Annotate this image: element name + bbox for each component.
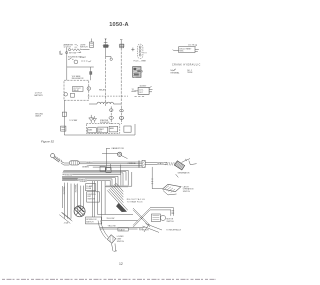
generator G1 (174, 161, 184, 170)
wires to generator (145, 162, 167, 164)
svg-text:12 VOLT: 12 VOLT (64, 47, 72, 49)
svg-text:YELLOW: YELLOW (64, 175, 72, 177)
svg-text:YELLOW: YELLOW (74, 185, 76, 193)
terminal block TB3 (109, 126, 118, 132)
svg-text:YELLOW: YELLOW (106, 218, 114, 220)
svg-text:BLACK: BLACK (86, 161, 93, 164)
wire mid vertical 1 (110, 106, 112, 124)
wire stub right (143, 52, 146, 54)
inductor L1 (89, 102, 122, 104)
latch operation switch (163, 184, 182, 191)
wire right double (150, 208, 173, 216)
svg-text:TO RECEPTACLE: TO RECEPTACLE (166, 228, 182, 231)
wire hooks between labels (59, 45, 78, 54)
wire left column drops (62, 183, 83, 219)
wire bottom-left diagonals (59, 212, 72, 223)
svg-text:BAT: BAT (60, 53, 64, 56)
capacitor C1 (118, 152, 122, 156)
wires to motor (143, 224, 163, 233)
svg-text:SWITCH: SWITCH (88, 199, 96, 201)
node terminal A (68, 49, 70, 51)
connector J1b (120, 109, 124, 112)
svg-text:1050-A: 1050-A (109, 22, 129, 28)
dashed bus wire (88, 95, 128, 97)
svg-text:SWITCH: SWITCH (183, 191, 191, 193)
svg-text:FUSE: FUSE (86, 188, 92, 190)
svg-text:RELAY: RELAY (73, 89, 80, 92)
terminal block TB1 (88, 128, 97, 133)
contact marks right (81, 60, 87, 62)
svg-text:KEY SW: KEY SW (69, 53, 77, 55)
harness wires to right (79, 162, 142, 167)
svg-text:1116837: 1116837 (140, 85, 147, 87)
diode D1 (89, 115, 94, 123)
svg-text:12: 12 (119, 262, 123, 266)
svg-text:AMM: AMM (110, 127, 115, 130)
wire branch to key (106, 57, 111, 59)
motor M1 (74, 60, 78, 64)
terminal left of box (64, 93, 68, 97)
svg-text:GREEN: GREEN (82, 167, 89, 169)
svg-text:PLUG — WIRE: PLUG — WIRE (134, 60, 147, 62)
receptacle harness diagonal (107, 183, 127, 211)
wire right drops with corners (98, 181, 106, 220)
terminal right of box (87, 87, 91, 91)
svg-text:Figure 52: Figure 52 (41, 140, 54, 144)
fuse F3 (62, 112, 66, 116)
dashed enclosure bottom (86, 123, 119, 133)
svg-text:BATTERY: BATTERY (34, 94, 43, 97)
regulator inner label (72, 87, 83, 92)
relay K1 box right (179, 47, 195, 53)
wire lower-left curves (98, 221, 108, 239)
wire right drop (90, 67, 92, 80)
wire mid vertical 2 (121, 106, 123, 124)
svg-text:CRANK HYDRAULIC: CRANK HYDRAULIC (172, 63, 201, 66)
wire riser to harness (106, 148, 110, 170)
label BLACK 2 (166, 162, 176, 165)
note left (173, 69, 177, 71)
black label box (118, 228, 128, 231)
svg-text:RELAY: RELAY (99, 88, 106, 91)
svg-text:TERM: TERM (187, 72, 193, 74)
svg-text:OUT: OUT (139, 92, 144, 94)
svg-text:SWITCH: SWITCH (80, 47, 88, 49)
svg-text:BLACK: BLACK (119, 228, 126, 231)
ignition switch label box (87, 192, 100, 202)
terminal block TB2 (98, 127, 108, 133)
ignition coil (69, 161, 79, 165)
battery BT1 (61, 126, 66, 131)
diode D2 (93, 116, 97, 123)
connector J1a (109, 109, 113, 112)
fuse holder F5 (120, 44, 124, 48)
resistor block hatched (133, 67, 141, 78)
svg-text:TO REAR PLUG: TO REAR PLUG (127, 201, 143, 204)
svg-text:CABLE: CABLE (35, 115, 42, 118)
wire lead right (195, 50, 199, 52)
wire bottom horizontals (100, 227, 145, 229)
fuse holder box b (106, 168, 111, 172)
interlock switch label box (86, 217, 102, 224)
relay K2 box (138, 87, 149, 94)
wire latch leg (152, 167, 162, 189)
wire capacitor feed (102, 152, 117, 154)
svg-text:12 V BAT: 12 V BAT (69, 119, 78, 122)
scan artifact line (2, 278, 216, 280)
receptacle dark end (116, 203, 126, 212)
terminal ring (110, 58, 112, 60)
contact marks (78, 52, 82, 53)
wire ignition feed 1 (105, 39, 107, 57)
resistor R1 (72, 49, 83, 51)
svg-text:BLACK: BLACK (158, 162, 165, 165)
svg-text:YELLOW: YELLOW (62, 187, 64, 195)
wire battery leg (63, 100, 65, 135)
svg-text:AMM: AMM (132, 90, 137, 93)
fuse F2 on drop (90, 72, 92, 75)
fuse label box (86, 184, 96, 191)
svg-text:MAG: MAG (88, 128, 93, 131)
connector J2b (119, 117, 123, 120)
svg-text:TERMINAL: TERMINAL (170, 71, 179, 74)
fuse F1 (91, 39, 93, 43)
wire band right drops (110, 170, 128, 185)
node terminal B (66, 52, 68, 54)
svg-text:SWITCH: SWITCH (167, 221, 175, 223)
wire generator lead (182, 159, 197, 165)
terminal cross (131, 48, 134, 52)
svg-text:1119845: 1119845 (188, 45, 197, 47)
svg-text:YELLOW: YELLOW (108, 225, 116, 227)
wire capacitor to harness (121, 156, 127, 159)
switch S1 (68, 58, 74, 59)
harness band wires (62, 170, 128, 177)
wire heavy feed (62, 178, 79, 180)
svg-text:START: START (80, 56, 87, 59)
svg-text:4 GA.: 4 GA. (64, 222, 69, 225)
wire plug to coil (61, 161, 70, 165)
connector bar (142, 160, 145, 167)
fuse holder box a (100, 166, 105, 171)
fuse holder F4 (104, 45, 108, 48)
connector P1 capsule (137, 44, 143, 58)
connector J2a (109, 117, 113, 120)
svg-text:SWITCH: SWITCH (86, 222, 94, 224)
lower limit switch body (107, 235, 115, 243)
svg-text:GENERATOR: GENERATOR (178, 172, 190, 175)
svg-text:REGULATOR: REGULATOR (72, 77, 84, 80)
wire bottom rail (64, 124, 135, 135)
wire ignition feed 2 (120, 40, 122, 48)
wire lead left (173, 49, 179, 52)
wire (83, 49, 90, 51)
wire crossing X (133, 208, 150, 227)
terminal block TB4 (124, 126, 131, 132)
ignition switch body (74, 206, 85, 217)
panel edge hatched (105, 172, 132, 186)
svg-text:SWITCH: SWITCH (117, 241, 125, 243)
regulator box U1 (64, 80, 89, 100)
spark plug terminal (51, 154, 55, 158)
svg-text:REG.: REG. (179, 51, 184, 53)
motor relay box (152, 214, 161, 222)
motor switch circle (160, 215, 165, 220)
wire horizontals lower (98, 215, 138, 221)
wire lower stub (112, 244, 118, 252)
svg-text:GREEN: GREEN (80, 181, 87, 183)
wire mid drops (92, 181, 94, 217)
wire left drop (67, 48, 94, 81)
svg-text:SOL: SOL (98, 131, 101, 133)
svg-text:CAPACITOR: CAPACITOR (111, 147, 124, 150)
wire harness-to-band drops (111, 164, 121, 175)
coil winding in box (71, 93, 75, 97)
wire K2 bottom dashes (135, 95, 145, 97)
wire K2 leads (135, 86, 153, 91)
